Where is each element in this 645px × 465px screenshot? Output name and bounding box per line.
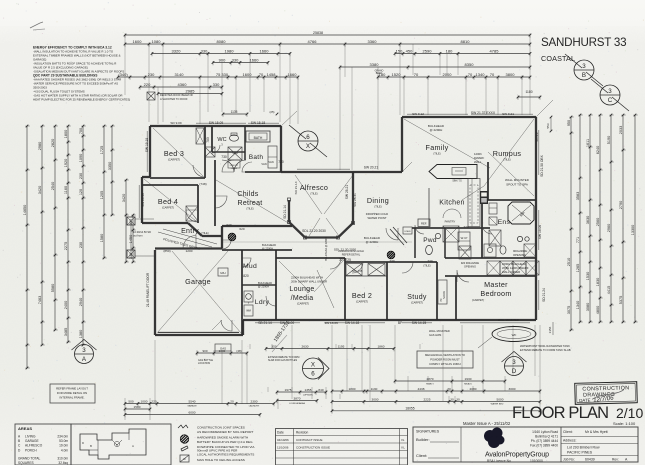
smoke alarm entry xyxy=(228,233,236,241)
wall mud ldry divider xyxy=(242,284,276,286)
svg-text:1800: 1800 xyxy=(64,130,68,138)
left dim col A xyxy=(26,126,28,368)
right dim col 2 xyxy=(579,115,581,322)
svg-text:Bulimba Q 4171: Bulimba Q 4171 xyxy=(535,435,558,439)
bed2 robe xyxy=(346,264,362,276)
svg-text:SINK T.S: SINK T.S xyxy=(452,181,462,183)
svg-text:SW 28.21: SW 28.21 xyxy=(345,185,349,200)
svg-text:PACIFIC PINES: PACIFIC PINES xyxy=(567,451,593,455)
svg-text:W.I.P: W.I.P xyxy=(461,236,468,240)
svg-text:19.0m: 19.0m xyxy=(59,444,68,448)
left dim col B xyxy=(41,126,43,345)
legend joint zigzag xyxy=(178,425,188,428)
svg-text:Master Issue A - 25/11/02: Master Issue A - 25/11/02 xyxy=(463,421,511,426)
svg-text:WALL: WALL xyxy=(474,160,482,164)
dim row gas xyxy=(197,352,247,354)
svg-text:4360: 4360 xyxy=(178,82,188,87)
svg-text:21.48 PANELIFT DOOR: 21.48 PANELIFT DOOR xyxy=(146,272,150,307)
svg-text:OPENING: OPENING xyxy=(464,265,476,269)
dim row bottom right B xyxy=(332,390,540,392)
svg-text:REFER DETAIL: REFER DETAIL xyxy=(342,253,361,257)
svg-text:2000: 2000 xyxy=(443,72,453,77)
ens wc xyxy=(500,246,506,254)
svg-text:3000: 3000 xyxy=(372,397,379,401)
door bed4 xyxy=(186,210,198,222)
svg-text:1530: 1530 xyxy=(586,272,590,280)
door garage rear xyxy=(221,320,232,331)
svg-text:2300: 2300 xyxy=(251,399,258,403)
pwd basin xyxy=(435,233,440,238)
mech vent note box xyxy=(417,351,473,368)
dim row top C left xyxy=(152,53,290,55)
left dim col I xyxy=(132,215,134,262)
svg-text:LOCAL AUTHORITIES REQUIREMENTS: LOCAL AUTHORITIES REQUIREMENTS xyxy=(197,452,254,456)
svg-text:SD 9.09: SD 9.09 xyxy=(170,121,181,125)
dim row bottom 18055 xyxy=(332,410,540,412)
entry paving diagonals xyxy=(158,232,212,247)
svg-text:720 | 725: 720 | 725 xyxy=(352,269,363,273)
lounge diagonal bulkhead xyxy=(317,270,334,308)
svg-text:AS RECOMMENDED BY SOIL REPORT: AS RECOMMENDED BY SOIL REPORT xyxy=(197,430,253,434)
wall wc west xyxy=(211,126,213,152)
door wc xyxy=(212,145,220,153)
study desk xyxy=(438,280,447,304)
svg-text:6: 6 xyxy=(311,370,315,377)
svg-text:B: B xyxy=(582,72,586,79)
svg-text:VAN: VAN xyxy=(261,162,266,166)
svg-text:GRAND TOTAL: GRAND TOTAL xyxy=(18,457,41,461)
svg-text:1080: 1080 xyxy=(152,39,162,44)
svg-text:@ 2290H: @ 2290H xyxy=(258,285,269,289)
svg-text:Bath: Bath xyxy=(249,154,264,161)
svg-text:310.0m: 310.0m xyxy=(57,457,68,461)
kitchen oven stack dark xyxy=(480,191,488,204)
gas meter box xyxy=(215,344,231,351)
svg-text:Dining: Dining xyxy=(367,196,389,205)
svg-text:7463: 7463 xyxy=(38,296,42,304)
svg-text:70: 70 xyxy=(468,72,473,77)
alfresco wall west xyxy=(288,200,290,222)
svg-text:620: 620 xyxy=(226,223,231,227)
svg-text:(25): (25) xyxy=(270,110,275,114)
svg-text:1205: 1205 xyxy=(100,191,104,199)
section marker 3A xyxy=(75,345,94,364)
svg-text:70: 70 xyxy=(259,72,264,77)
svg-text:1340: 1340 xyxy=(476,72,486,77)
marker X6 arrow xyxy=(318,358,329,380)
roof hip diagonal lines xyxy=(404,119,490,168)
svg-text:SLAB FOR GAS BOTTLES: SLAB FOR GAS BOTTLES xyxy=(268,359,297,362)
door childs retreat a xyxy=(222,160,234,172)
svg-text:(48): (48) xyxy=(236,349,241,353)
svg-text:2033: 2033 xyxy=(619,126,623,134)
svg-text:WC: WC xyxy=(217,137,226,143)
exterior wall bed3 west xyxy=(149,126,151,177)
wall bed2 study divider xyxy=(386,262,388,320)
wall wc east / bath west xyxy=(244,126,246,160)
door master xyxy=(457,270,469,282)
exterior wall bed4 south xyxy=(142,222,188,224)
svg-text:(CARPET): (CARPET) xyxy=(472,298,484,302)
svg-text:5190: 5190 xyxy=(607,136,611,144)
svg-text:Pwd: Pwd xyxy=(423,237,437,244)
dim row 1180 xyxy=(518,96,540,98)
wall bed3 east xyxy=(204,126,206,178)
porch slab edge xyxy=(131,219,155,256)
svg-text:2960: 2960 xyxy=(607,224,611,232)
svg-text:1975: 1975 xyxy=(285,388,292,392)
exterior wall family west xyxy=(401,117,403,172)
dim row bottom 1975 xyxy=(277,391,326,393)
svg-text:(TILE): (TILE) xyxy=(310,192,317,196)
door hall dining xyxy=(386,228,398,240)
svg-text:Family: Family xyxy=(426,143,449,152)
svg-text:3140: 3140 xyxy=(175,72,185,77)
svg-text:FOR MORE DETAIL ON: FOR MORE DETAIL ON xyxy=(57,391,87,395)
svg-text:180: 180 xyxy=(446,48,453,53)
svg-text:SW 20.21: SW 20.21 xyxy=(364,166,379,170)
svg-text:3870: 3870 xyxy=(294,396,301,400)
dim row bottom right C xyxy=(332,401,540,403)
svg-text:SB 21.14: SB 21.14 xyxy=(258,321,272,325)
svg-text:Alfresco: Alfresco xyxy=(300,183,328,192)
svg-text:3075: 3075 xyxy=(567,306,571,314)
svg-text:COMPLY WITH AS 1668.2: COMPLY WITH AS 1668.2 xyxy=(429,362,461,366)
svg-text:SQUARES: SQUARES xyxy=(18,461,34,465)
door pwd xyxy=(415,225,424,234)
svg-text:820: 820 xyxy=(243,274,249,278)
svg-text:2870: 2870 xyxy=(427,377,434,381)
svg-text:1340: 1340 xyxy=(576,301,580,309)
svg-text:Job No:: Job No: xyxy=(563,458,575,462)
svg-text:3: 3 xyxy=(582,63,586,70)
svg-text:Revision: Revision xyxy=(296,431,308,435)
svg-text:SW 15.09: SW 15.09 xyxy=(209,121,224,125)
svg-text:MEALS: MEALS xyxy=(464,383,472,386)
exterior wall garage west xyxy=(154,250,156,335)
exterior wall step bed4 xyxy=(142,176,150,178)
svg-text:2940: 2940 xyxy=(79,298,83,306)
svg-text:Ens.: Ens. xyxy=(498,219,513,226)
ens shower xyxy=(524,244,536,257)
svg-text:770: 770 xyxy=(463,225,468,229)
door bed2 xyxy=(352,262,363,273)
master robe xboxes xyxy=(487,261,500,275)
exterior wall garage south xyxy=(155,334,243,336)
svg-text:WALL MOUNTED: WALL MOUNTED xyxy=(498,318,519,322)
exterior wall entry south xyxy=(155,247,222,249)
svg-text:8080: 8080 xyxy=(217,39,227,44)
bath tub xyxy=(246,131,270,142)
svg-text:2400: 2400 xyxy=(64,301,68,309)
ens spa xyxy=(508,202,534,224)
svg-text:2225: 2225 xyxy=(424,397,431,401)
svg-text:A SHOOTER TO ROOF: A SHOOTER TO ROOF xyxy=(160,97,188,101)
paper white top strip xyxy=(0,0,645,44)
svg-text:MAN HOLE TO CEILING ACCESS: MAN HOLE TO CEILING ACCESS xyxy=(197,458,245,462)
svg-text:120: 120 xyxy=(79,189,83,195)
wall robe south master north xyxy=(445,275,536,277)
svg-text:Entry: Entry xyxy=(181,228,199,235)
svg-text:ALFRESCO: ALFRESCO xyxy=(25,444,43,448)
wip inner boxes xyxy=(458,232,470,250)
svg-text:3800: 3800 xyxy=(506,72,516,77)
svg-text:3320: 3320 xyxy=(172,48,182,53)
svg-text:SDL 21.20 2030: SDL 21.20 2030 xyxy=(302,229,326,233)
svg-text:780: 780 xyxy=(206,137,210,143)
svg-text:DENOTES ROOF BEAM OF: DENOTES ROOF BEAM OF xyxy=(160,93,194,97)
wall bed4 east xyxy=(197,185,199,223)
svg-text:3630: 3630 xyxy=(586,216,590,224)
svg-text:5540: 5540 xyxy=(189,399,196,403)
right dim col 1 xyxy=(570,117,572,330)
exterior wall childs retreat south xyxy=(222,225,292,227)
svg-text:B: B xyxy=(90,444,92,448)
svg-text:D: D xyxy=(512,368,517,375)
svg-text:2630: 2630 xyxy=(302,344,309,348)
hall internal dim xyxy=(222,241,412,243)
pencil mark top left xyxy=(30,22,43,28)
svg-text:4438: 4438 xyxy=(418,387,425,391)
svg-text:Fax (07) 3899 4400: Fax (07) 3899 4400 xyxy=(530,444,558,448)
svg-text:720: 720 xyxy=(278,160,284,164)
svg-text:4415: 4415 xyxy=(607,286,611,294)
svg-text:SIGNATURES: SIGNATURES xyxy=(416,430,440,434)
svg-text:2980: 2980 xyxy=(38,142,42,150)
svg-text:SW 9.12: SW 9.12 xyxy=(412,112,424,116)
svg-text:VAN: VAN xyxy=(268,160,273,164)
svg-text:Garage: Garage xyxy=(185,277,211,286)
svg-text:PORCH: PORCH xyxy=(25,448,37,452)
svg-text:Date: Date xyxy=(277,431,284,435)
areas table xyxy=(15,424,71,465)
door ldry xyxy=(266,296,276,306)
left dim col D xyxy=(67,126,69,342)
door mud2 xyxy=(222,240,231,249)
kitchen fridge xyxy=(418,219,430,227)
svg-text:WM: WM xyxy=(246,309,251,313)
svg-text:6: 6 xyxy=(306,134,310,141)
svg-text:2290H/CF/0mm HIGH: 2290H/CF/0mm HIGH xyxy=(338,249,364,253)
svg-text:950: 950 xyxy=(567,120,571,126)
svg-text:Lot 293 Bimberi Row: Lot 293 Bimberi Row xyxy=(567,446,600,450)
svg-text:5580: 5580 xyxy=(51,284,55,292)
svg-text:1195: 1195 xyxy=(338,344,345,348)
svg-text:WALL MOUNTED: WALL MOUNTED xyxy=(429,329,450,333)
exterior wall bed4 corner diag xyxy=(188,223,202,236)
svg-text:SW 28.31: SW 28.31 xyxy=(353,193,357,207)
exterior wall bed4 west xyxy=(141,177,143,223)
wall ens west xyxy=(481,200,483,258)
svg-text:NOOK: NOOK xyxy=(442,291,446,299)
svg-text:(850): (850) xyxy=(163,249,170,253)
svg-text:(340): (340) xyxy=(118,72,128,77)
svg-text:1580: 1580 xyxy=(134,405,141,409)
ens vanity xyxy=(484,244,496,257)
study robe xyxy=(368,264,385,276)
svg-text:70: 70 xyxy=(414,72,419,77)
section marker 3D xyxy=(505,357,524,376)
alfresco posts xyxy=(288,198,291,201)
section marker 3C xyxy=(600,85,620,105)
svg-text:2510: 2510 xyxy=(567,258,571,266)
svg-text:1830: 1830 xyxy=(596,278,600,286)
svg-text:6240: 6240 xyxy=(596,146,600,154)
section marker 6X xyxy=(298,131,318,151)
vertical dim connector lines xyxy=(124,35,126,95)
svg-text:Ph. (07) 3899 4444: Ph. (07) 3899 4444 xyxy=(531,439,559,443)
svg-text:WATER BED: WATER BED xyxy=(491,403,504,406)
smoke alarm hall dining xyxy=(387,251,395,259)
svg-text:3420: 3420 xyxy=(38,186,42,194)
linen box hall xyxy=(403,227,412,234)
svg-text:SD 21.14: SD 21.14 xyxy=(294,181,298,194)
svg-text:BATTERY BACKUP AS PER Q.F.A RE: BATTERY BACKUP AS PER Q.F.A REG xyxy=(197,440,253,444)
svg-text:(748): (748) xyxy=(199,182,206,186)
svg-text:1580: 1580 xyxy=(100,234,104,242)
svg-text:WALL MOUNTED: WALL MOUNTED xyxy=(505,178,530,182)
exterior wall bath east xyxy=(280,126,282,172)
svg-text:M/H: M/H xyxy=(220,271,225,275)
exterior wall entry east xyxy=(221,226,223,249)
svg-text:(TILE): (TILE) xyxy=(433,152,440,156)
svg-text:SW 21.37 EXXX: SW 21.37 EXXX xyxy=(471,111,496,115)
svg-text:1920: 1920 xyxy=(64,159,68,167)
svg-text:Bed 4: Bed 4 xyxy=(158,197,178,206)
dim row bottom right A xyxy=(395,380,505,382)
dim row top D left xyxy=(213,62,268,64)
alfresco wall east xyxy=(352,172,354,224)
svg-text:PC: PC xyxy=(440,298,443,302)
wall mud laundry west / garage east xyxy=(241,250,243,335)
svg-text:180: 180 xyxy=(379,72,386,77)
refer frame note box xyxy=(50,384,95,403)
svg-text:C: C xyxy=(116,443,118,447)
svg-text:8810: 8810 xyxy=(461,39,471,44)
wall hall childs retreat west xyxy=(214,160,216,226)
svg-text:GAS HWS: GAS HWS xyxy=(429,333,442,337)
svg-text:(CARPET): (CARPET) xyxy=(356,300,368,304)
right dim col 4 xyxy=(599,115,601,322)
dim row overall 25838 xyxy=(125,34,530,36)
bath shower xbox xyxy=(228,147,242,160)
ens light circles xyxy=(517,236,522,241)
svg-text:8350: 8350 xyxy=(465,62,475,67)
laundry tub xyxy=(244,291,253,302)
svg-text:1660: 1660 xyxy=(288,72,298,77)
svg-text:04/10/06: 04/10/06 xyxy=(277,438,289,442)
svg-text:BATH: BATH xyxy=(254,136,263,140)
paper tint over plan area xyxy=(0,85,645,445)
svg-text:1355: 1355 xyxy=(305,388,312,392)
right dim col 7 xyxy=(634,115,636,322)
svg-text:Bed 3: Bed 3 xyxy=(164,149,184,158)
svg-text:4.0m: 4.0m xyxy=(61,448,68,452)
svg-text:220: 220 xyxy=(151,399,156,403)
svg-text:2820: 2820 xyxy=(51,139,55,147)
exterior wall family north xyxy=(402,116,536,118)
left dim col H xyxy=(125,180,127,262)
svg-text:Rev:: Rev: xyxy=(612,458,619,462)
svg-text:1090: 1090 xyxy=(79,154,83,162)
svg-text:3485: 3485 xyxy=(64,328,68,336)
svg-text:SD 21.24: SD 21.24 xyxy=(542,288,546,302)
dim row 3870 xyxy=(277,400,317,402)
date revision table xyxy=(276,429,408,465)
porch column 2 xyxy=(127,250,135,258)
pwd toilet xyxy=(426,245,433,254)
right dim col 3 xyxy=(589,115,591,322)
svg-text:Study: Study xyxy=(407,294,427,301)
svg-text:(TILE): (TILE) xyxy=(423,264,430,268)
svg-text:REFER FRAME LAYOUT: REFER FRAME LAYOUT xyxy=(56,387,88,391)
alfresco wall se diagonal xyxy=(338,223,353,238)
svg-text:SW 10.18: SW 10.18 xyxy=(141,193,145,207)
svg-text:Address:: Address: xyxy=(563,439,576,443)
svg-text:Lounge: Lounge xyxy=(289,286,314,293)
svg-text:1200: 1200 xyxy=(186,249,193,253)
svg-text:SHR: SHR xyxy=(232,151,238,155)
wc toilet xyxy=(230,135,239,141)
svg-text:2/10: 2/10 xyxy=(616,405,643,421)
svg-text:1860: 1860 xyxy=(378,344,385,348)
svg-text:3: 3 xyxy=(608,88,612,95)
wip shelves left xyxy=(459,246,471,259)
svg-text:25838: 25838 xyxy=(313,31,323,35)
dim row top F xyxy=(140,86,222,88)
wall bed3 south hall xyxy=(150,177,205,179)
svg-text:1000: 1000 xyxy=(141,399,148,403)
svg-text:3360: 3360 xyxy=(368,39,378,44)
kitchen island bench xyxy=(429,165,477,179)
svg-text:1130: 1130 xyxy=(371,387,378,391)
window sill lines xyxy=(196,122,246,124)
alfresco wall south xyxy=(305,236,338,238)
svg-text:GARAGE: GARAGE xyxy=(187,405,197,408)
wip shelves right xyxy=(489,230,501,246)
svg-text:SW 19.06: SW 19.06 xyxy=(538,225,542,240)
signatures block xyxy=(413,427,638,462)
svg-text:620: 620 xyxy=(239,227,244,231)
svg-text:@ 2290H: @ 2290H xyxy=(430,128,443,132)
svg-text:(CARPET): (CARPET) xyxy=(162,206,174,210)
svg-text:FLOOR PLAN: FLOOR PLAN xyxy=(512,404,609,422)
svg-text:1600: 1600 xyxy=(243,72,253,77)
svg-text:SW 9.21: SW 9.21 xyxy=(502,112,514,116)
door bed3 xyxy=(193,165,205,177)
svg-text:D: D xyxy=(82,441,84,445)
svg-text:(TILE): (TILE) xyxy=(246,207,253,211)
wall mud north xyxy=(222,249,292,251)
svg-text:Scale: 1:100: Scale: 1:100 xyxy=(613,421,636,426)
water tank leader xyxy=(478,337,492,348)
svg-text:230: 230 xyxy=(148,72,155,77)
wall study east xyxy=(436,262,438,320)
svg-text:(CARPET): (CARPET) xyxy=(297,302,309,306)
construction stamp xyxy=(575,382,638,405)
svg-text:14650: 14650 xyxy=(23,205,27,216)
svg-text:CONTRACT ISSUE: CONTRACT ISSUE xyxy=(296,438,322,442)
door ens xyxy=(482,224,492,234)
left dim col E xyxy=(82,126,84,345)
svg-text:20: 20 xyxy=(230,399,234,403)
svg-text:13300: 13300 xyxy=(631,225,635,236)
svg-text:X: X xyxy=(311,362,315,369)
svg-text:730: 730 xyxy=(427,259,432,263)
svg-text:LINEN: LINEN xyxy=(231,168,238,170)
door bath xyxy=(242,162,252,172)
svg-text:2540: 2540 xyxy=(51,182,55,190)
